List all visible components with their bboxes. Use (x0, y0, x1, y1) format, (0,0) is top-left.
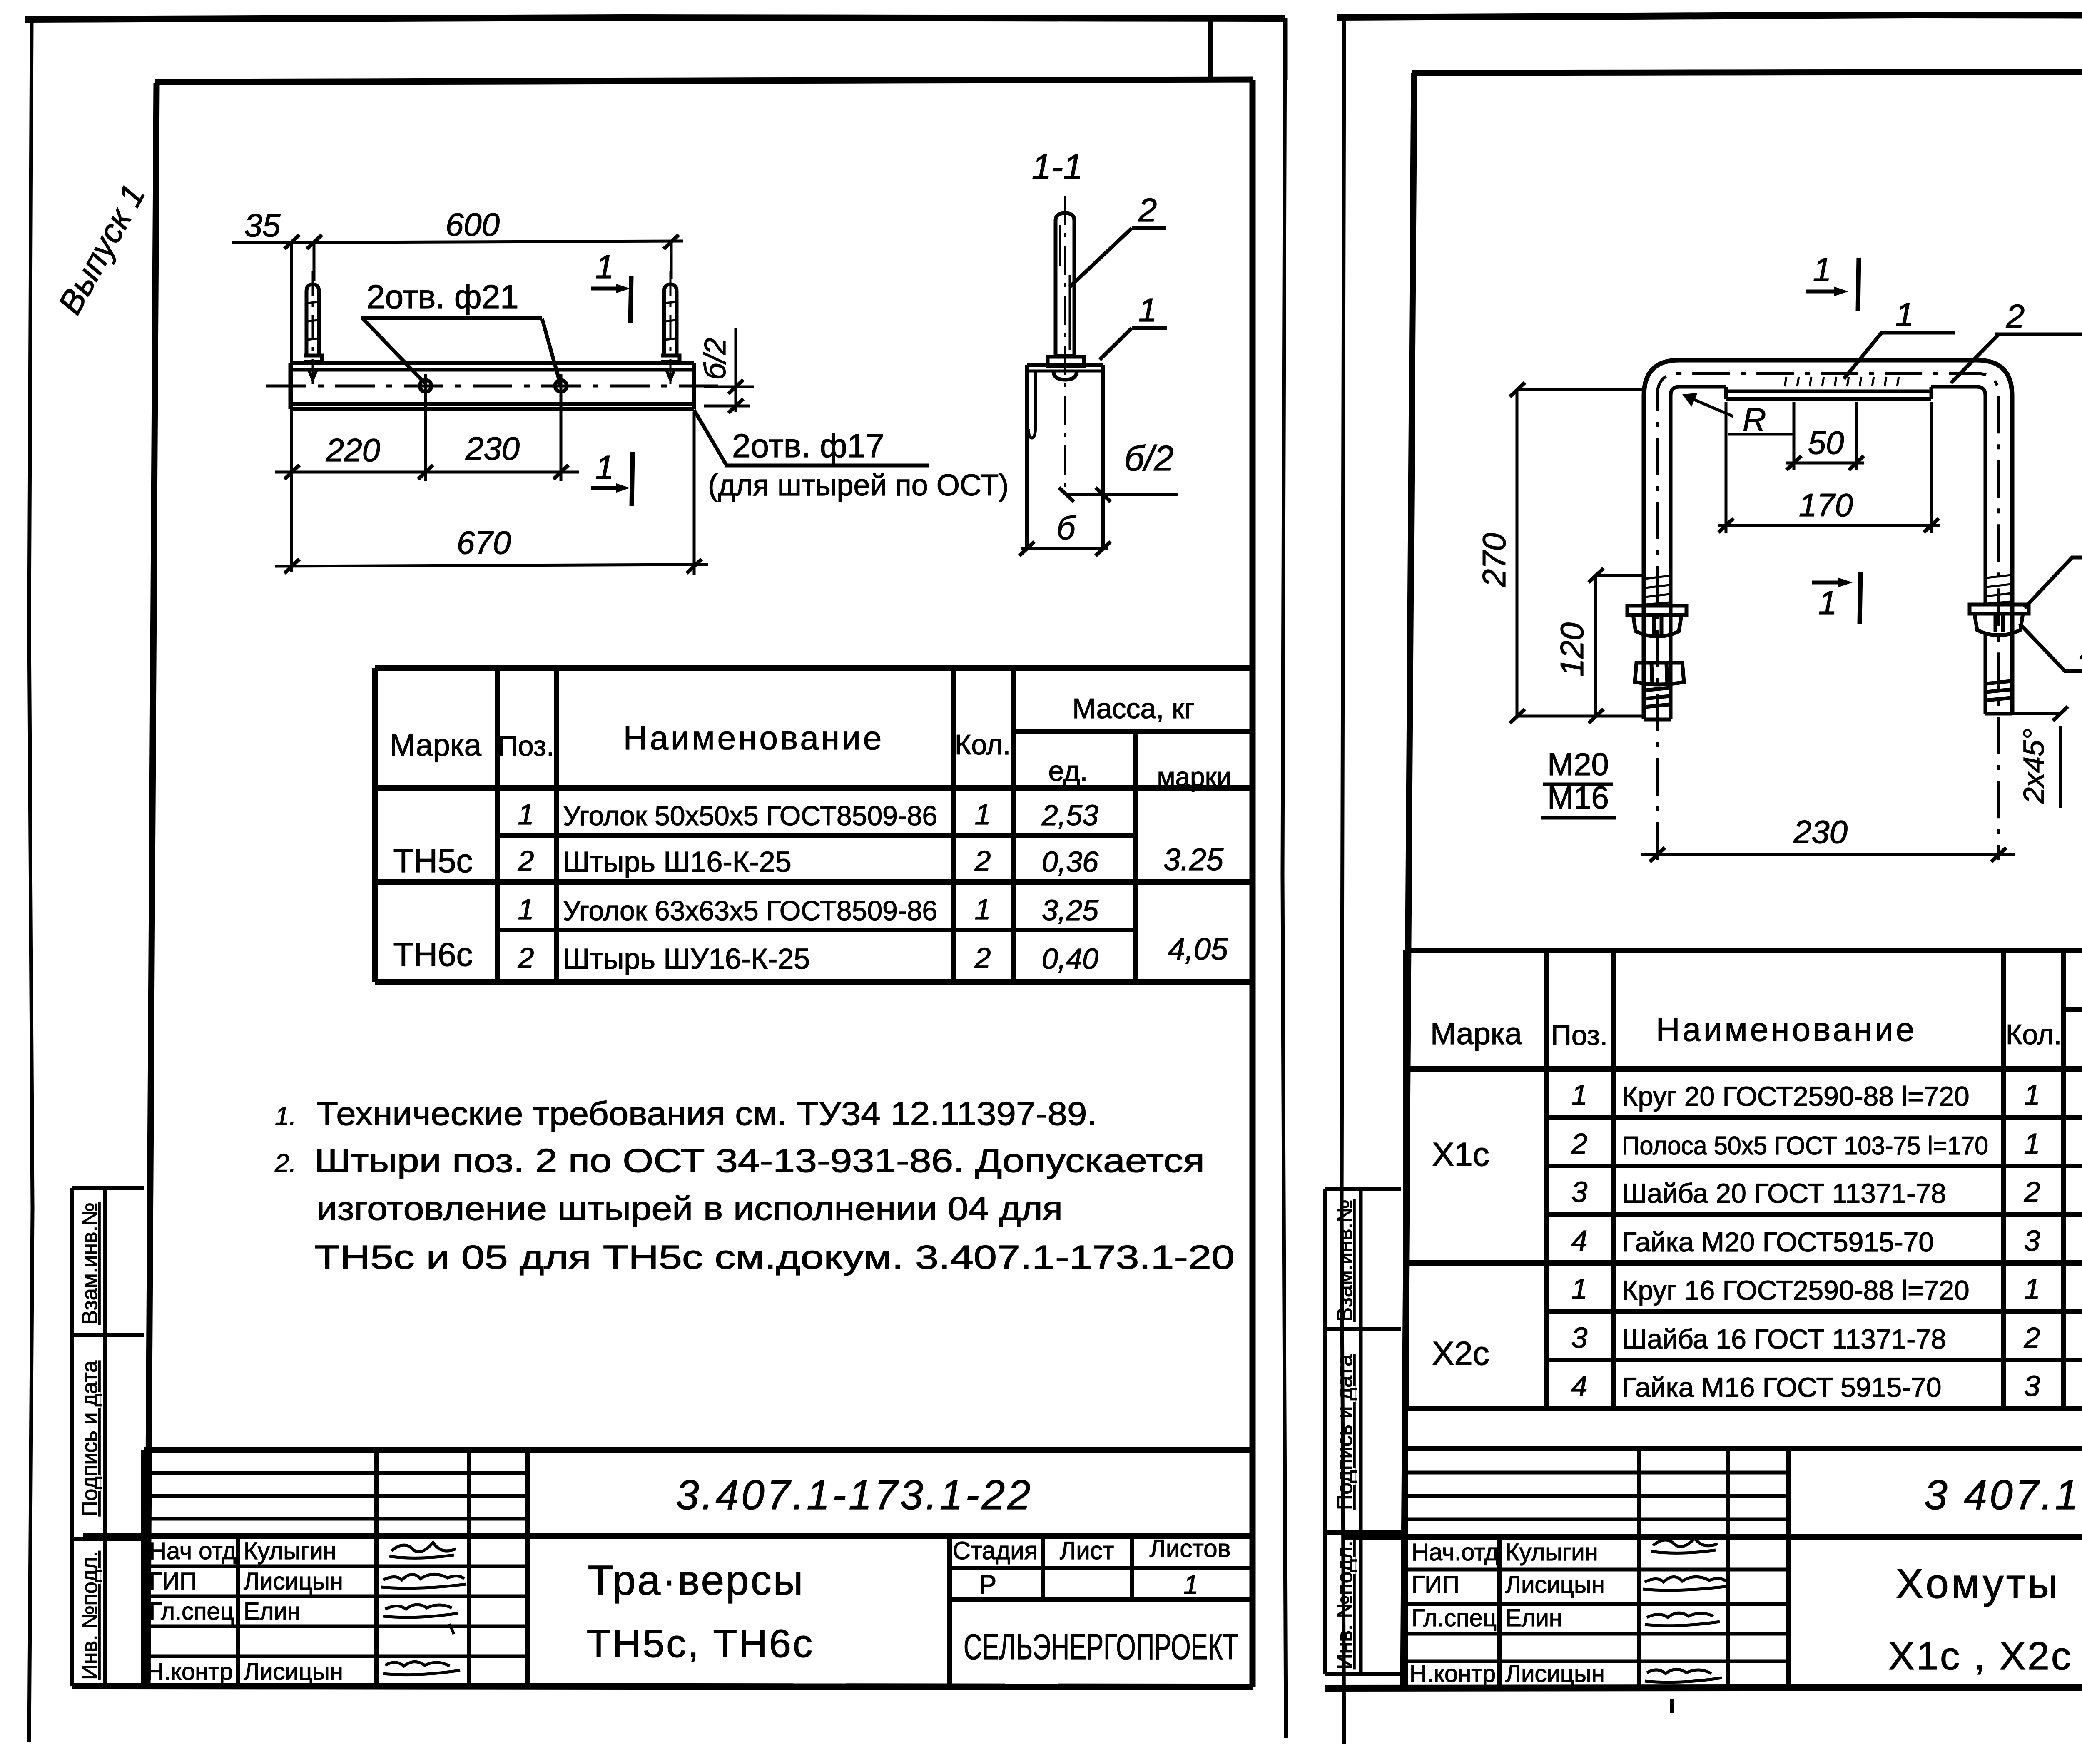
svg-text:1-1: 1-1 (1032, 147, 1083, 187)
crossarm angle bar side view (290, 363, 694, 409)
right signature 2 (1643, 1577, 1728, 1590)
svg-text:3.25: 3.25 (1163, 842, 1224, 877)
svg-text:2,53: 2,53 (1041, 799, 1098, 831)
svg-text:Хомуты: Хомуты (1896, 1560, 2060, 1607)
right row2 (1571, 1127, 2082, 1161)
svg-text:2: 2 (2024, 1176, 2040, 1208)
svg-text:2: 2 (518, 845, 534, 877)
right staff row3 (1412, 1605, 1562, 1632)
svg-text:Уголок 50х50х5 ГОСТ8509-86: Уголок 50х50х5 ГОСТ8509-86 (563, 800, 937, 831)
dimension line 220 230 (275, 398, 579, 481)
dimension 120 (1589, 568, 1646, 723)
leader 1 section (1100, 328, 1167, 360)
section pin washer and dome (1048, 357, 1084, 380)
left title block grid (72, 1450, 1253, 1687)
left table row4 (518, 942, 1099, 975)
svg-text:СЕЛЬЭНЕРГОПРОЕКТ: СЕЛЬЭНЕРГОПРОЕКТ (964, 1627, 1238, 1667)
leader 3 right sheet (2025, 557, 2082, 608)
svg-text:Наименование: Наименование (1656, 1011, 1917, 1048)
svg-text:Уголок 63х63х5 ГОСТ8509-86: Уголок 63х63х5 ГОСТ8509-86 (563, 895, 937, 926)
svg-text:1: 1 (1183, 1570, 1198, 1600)
svg-text:3: 3 (2024, 1224, 2040, 1257)
right washer (1970, 605, 2029, 614)
left sheet outer right border (1283, 18, 1286, 1738)
svg-text:(для штырей по ОСТ): (для штырей по ОСТ) (708, 469, 1009, 502)
leader 4 right sheet (2020, 624, 2082, 671)
right sheet outer left border (1342, 17, 1344, 1744)
right staff row1 (1412, 1539, 1598, 1566)
dimension б/2 of bar (704, 328, 754, 413)
left staff row2 (149, 1568, 343, 1595)
svg-text:2: 2 (518, 942, 534, 974)
svg-text:Инв. №подл.: Инв. №подл. (1333, 1540, 1357, 1669)
svg-text:М20: М20 (1547, 747, 1609, 782)
left staff row1 (149, 1538, 336, 1565)
svg-text:ТН5с, ТН6с: ТН5с, ТН6с (587, 1622, 814, 1666)
svg-text:Круг 16 ГОСТ2590-88 l=720: Круг 16 ГОСТ2590-88 l=720 (1622, 1275, 1970, 1306)
svg-text:Кулыгин: Кулыгин (244, 1538, 336, 1565)
right signature 5 (1645, 1669, 1722, 1682)
svg-text:4: 4 (1571, 1224, 1588, 1257)
svg-text:Елин: Елин (244, 1598, 301, 1625)
svg-text:Лист: Лист (1060, 1537, 1114, 1565)
svg-text:ед.: ед. (1048, 755, 1088, 787)
right row7 (1571, 1370, 2040, 1403)
svg-text:Кол.: Кол. (2006, 1019, 2062, 1050)
svg-text:Гл.спец: Гл.спец (1412, 1605, 1497, 1632)
svg-text:Нач.отд: Нач.отд (1412, 1539, 1499, 1566)
leader 2 right sheet (1951, 334, 2082, 383)
dimension 170 (1718, 402, 1940, 533)
svg-text:Р: Р (979, 1570, 997, 1600)
left signature 3 (383, 1605, 458, 1634)
svg-text:1: 1 (1138, 291, 1157, 328)
svg-text:1: 1 (2024, 1127, 2040, 1160)
left table row1 (518, 798, 1099, 831)
left pin (304, 284, 322, 380)
svg-text:Штырь Ш16-К-25: Штырь Ш16-К-25 (563, 846, 792, 878)
chamfer 2x45 (2012, 707, 2068, 808)
right row3 (1571, 1176, 2040, 1209)
svg-text:1.: 1. (275, 1102, 296, 1131)
svg-text:Шайба 20 ГОСТ 11371-78: Шайба 20 ГОСТ 11371-78 (1622, 1178, 1946, 1209)
left pin centerline (312, 271, 314, 385)
svg-text:марки: марки (1157, 762, 1232, 792)
svg-text:220: 220 (326, 432, 380, 468)
dimension 35 and 600 top line (232, 235, 683, 572)
right parts table grid (1406, 950, 2082, 1448)
leader 1 right sheet (1844, 333, 1955, 379)
right nut (1975, 614, 2023, 635)
svg-text:1: 1 (595, 449, 614, 486)
section pin (1056, 213, 1074, 356)
svg-text:Х1с: Х1с (1432, 1136, 1489, 1173)
svg-text:50: 50 (1808, 424, 1844, 461)
svg-text:R: R (1743, 401, 1766, 438)
svg-text:1: 1 (518, 798, 534, 831)
dimension 270 (1510, 383, 1645, 723)
dimension б/2 section (1059, 488, 1178, 502)
svg-text:230: 230 (1793, 814, 1848, 850)
small tick below right staff (1670, 1699, 1674, 1713)
svg-text:изготовление штырей в испол: изготовление штырей в исполнении 04 для (316, 1190, 1063, 1227)
svg-text:Марка: Марка (390, 728, 482, 762)
section mark 1 middle right sheet (1812, 572, 1860, 624)
svg-text:1: 1 (2024, 1079, 2040, 1111)
svg-text:ГИП: ГИП (149, 1568, 197, 1595)
dimension line 670 (275, 412, 708, 575)
right staff row5 (1410, 1660, 1605, 1687)
svg-text:Кулыгин: Кулыгин (1505, 1539, 1598, 1566)
svg-text:2: 2 (974, 942, 991, 974)
left table row2 (518, 845, 1099, 878)
svg-text:М16: М16 (1547, 780, 1609, 816)
svg-text:Полоса 50х5 ГОСТ 103-75 l=170: Полоса 50х5 ГОСТ 103-75 l=170 (1622, 1132, 1988, 1160)
svg-text:ТН5с: ТН5с (393, 842, 473, 879)
svg-text:б/2: б/2 (699, 338, 732, 380)
svg-text:1: 1 (2024, 1273, 2040, 1305)
reinforcing strip (1726, 387, 1931, 399)
left table row3 (518, 893, 1099, 926)
left signature 5 (383, 1662, 460, 1674)
svg-text:Взам.инв.№: Взам.инв.№ (1333, 1199, 1357, 1321)
leader 2отв ф21 (361, 318, 560, 385)
svg-text:1: 1 (518, 893, 534, 926)
right pin centerline (670, 271, 672, 385)
right row5 (1571, 1273, 2082, 1306)
thread marks top middle (1785, 377, 1899, 386)
left sheet outer left border (29, 20, 32, 1742)
right signature 1 (1651, 1538, 1718, 1553)
svg-text:Шайба 16 ГОСТ 11371-78: Шайба 16 ГОСТ 11371-78 (1622, 1324, 1946, 1354)
svg-text:2: 2 (1571, 1127, 1588, 1160)
svg-text:ТН5с и 05 для ТН5с см.до: ТН5с и 05 для ТН5с см.докум. 3.407.1-173… (314, 1239, 1235, 1276)
svg-text:Гл.спец: Гл.спец (149, 1598, 234, 1625)
svg-text:Лисицын: Лисицын (244, 1658, 343, 1685)
right signature 3 (1645, 1613, 1720, 1626)
right sheet inner frame (1403, 71, 2082, 1687)
dimension 230 bottom (1641, 848, 2015, 862)
left leg thread upper (1645, 576, 1669, 605)
svg-text:Тра·версы: Тра·версы (588, 1557, 804, 1604)
svg-text:Подпись и дата: Подпись и дата (1333, 1354, 1357, 1510)
svg-text:3: 3 (1571, 1321, 1588, 1354)
right row4 (1571, 1224, 2040, 1257)
dimension б section (1019, 542, 1111, 556)
leader 2отв ф17 (694, 410, 929, 465)
left staff row5 (147, 1658, 343, 1685)
svg-text:Лисицын: Лисицын (244, 1568, 343, 1595)
svg-text:Кол.: Кол. (955, 729, 1011, 761)
svg-text:Штыри поз. 2 по ОСТ 34-13-9: Штыри поз. 2 по ОСТ 34-13-931-86. Допуск… (314, 1142, 1205, 1179)
left stamp boxes (72, 1188, 144, 1686)
svg-text:3,25: 3,25 (1042, 894, 1099, 926)
hole 1 (420, 374, 431, 398)
svg-text:Штырь ШУ16-К-25: Штырь ШУ16-К-25 (563, 943, 810, 975)
svg-text:3 407.1-173.1-23: 3 407.1-173.1-23 (1924, 1472, 2082, 1518)
right pin (661, 284, 680, 380)
left leg lower part (1644, 606, 1671, 719)
page top border line left part (25, 17, 1285, 20)
left staff row3 (149, 1598, 301, 1625)
left sheet inner frame (147, 80, 1253, 1687)
right title block grid (1325, 1448, 2082, 1688)
left sheet page number box (1210, 18, 1285, 80)
svg-text:1: 1 (1571, 1079, 1588, 1111)
svg-text:Наименование: Наименование (623, 719, 884, 756)
svg-text:2: 2 (2024, 1321, 2040, 1354)
section mark 1 top right sheet (1806, 258, 1859, 311)
svg-text:Круг 20 ГОСТ2590-88 l=720: Круг 20 ГОСТ2590-88 l=720 (1622, 1081, 1970, 1112)
svg-text:0,40: 0,40 (1042, 943, 1098, 975)
hole 2 (555, 374, 567, 398)
svg-text:Х2с: Х2с (1432, 1335, 1489, 1372)
svg-text:Поз.: Поз. (498, 730, 554, 762)
svg-text:Гайка М20 ГОСТ5915-70: Гайка М20 ГОСТ5915-70 (1622, 1227, 1934, 1257)
section mark 1 lower (591, 452, 633, 506)
left signature 1 (389, 1543, 456, 1558)
svg-text:4: 4 (1571, 1370, 1588, 1402)
svg-text:1: 1 (595, 248, 614, 285)
svg-text:Масса, кг: Масса, кг (1072, 693, 1194, 724)
right row6 (1571, 1321, 2040, 1354)
svg-text:Подпись и дата: Подпись и дата (78, 1361, 102, 1516)
svg-text:Елин: Елин (1505, 1605, 1562, 1632)
svg-text:4,05: 4,05 (1168, 932, 1228, 966)
left second nut (1635, 663, 1684, 684)
section pin centerline (1064, 196, 1066, 495)
page top border line right part (1337, 15, 2082, 17)
svg-text:Поз.: Поз. (1551, 1020, 1608, 1051)
right stamp boxes (1325, 1189, 1401, 1674)
svg-text:Гайка М16 ГОСТ 5915-70: Гайка М16 ГОСТ 5915-70 (1622, 1372, 1941, 1403)
section mark 1 upper (591, 276, 631, 323)
svg-text:Нач отд: Нач отд (149, 1538, 236, 1565)
svg-text:35: 35 (244, 207, 281, 244)
left signature 2 (381, 1574, 466, 1588)
svg-text:Инв. №подл.: Инв. №подл. (78, 1551, 102, 1679)
svg-text:Марка: Марка (1430, 1016, 1522, 1051)
svg-text:Лисицын: Лисицын (1505, 1571, 1605, 1598)
svg-text:Х1с , Х2с: Х1с , Х2с (1888, 1634, 2073, 1678)
svg-text:Н.контр: Н.контр (147, 1658, 233, 1685)
section angle profile (1027, 365, 1103, 550)
svg-text:2: 2 (974, 845, 991, 877)
thread labels М20 М16 (1541, 747, 1616, 818)
svg-text:2х45°: 2х45° (2017, 729, 2050, 804)
svg-text:230: 230 (465, 430, 520, 467)
svg-text:170: 170 (1799, 487, 1853, 523)
svg-text:б/2: б/2 (1124, 439, 1174, 478)
svg-text:2отв. ф21: 2отв. ф21 (366, 278, 519, 315)
svg-text:Взам.инв.№: Взам.инв.№ (78, 1202, 102, 1324)
U-bolt centerline (1657, 373, 1999, 860)
svg-text:ГИП: ГИП (1412, 1571, 1459, 1598)
left washer (1627, 606, 1686, 615)
right staff row2 (1412, 1571, 1605, 1598)
svg-text:б: б (1057, 509, 1077, 546)
svg-text:270: 270 (1476, 533, 1512, 587)
right row1 (1571, 1079, 2082, 1112)
svg-text:Н.контр: Н.контр (1410, 1660, 1496, 1687)
svg-text:1: 1 (975, 893, 991, 926)
svg-text:1: 1 (1895, 296, 1914, 333)
U-bolt inner contour (1671, 387, 1985, 606)
svg-text:0,36: 0,36 (1042, 846, 1098, 878)
svg-text:2отв. ф17: 2отв. ф17 (732, 427, 884, 464)
right leg thread upper (1987, 575, 2011, 604)
svg-text:670: 670 (457, 524, 511, 561)
svg-text:1: 1 (1813, 251, 1832, 288)
bar centerline (266, 385, 720, 388)
svg-text:1: 1 (975, 798, 991, 831)
svg-text:2.: 2. (274, 1149, 296, 1178)
dimension 50 top (1786, 402, 1864, 470)
svg-text:Листов: Листов (1150, 1535, 1231, 1562)
svg-text:2: 2 (2006, 298, 2025, 335)
svg-text:3: 3 (2024, 1370, 2040, 1402)
left nut (1633, 615, 1681, 636)
svg-text:Выпуск 1: Выпуск 1 (51, 178, 152, 320)
svg-text:3.407.1-173.1-22: 3.407.1-173.1-22 (676, 1472, 1033, 1518)
svg-text:ТН6с: ТН6с (393, 936, 473, 973)
svg-text:Технические требования см. Т: Технические требования см. ТУ34 12.11397… (316, 1095, 1097, 1132)
left parts table grid (375, 668, 1253, 982)
svg-text:3: 3 (1571, 1176, 1588, 1208)
svg-text:600: 600 (446, 206, 500, 243)
svg-text:120: 120 (1554, 622, 1590, 677)
U-bolt outer contour (1644, 360, 2012, 719)
svg-text:Лисицын: Лисицын (1505, 1660, 1605, 1687)
right leg lower part (1985, 632, 2012, 714)
leader 2 section (1070, 228, 1166, 287)
leader R (1683, 393, 1795, 434)
svg-text:1: 1 (1571, 1273, 1588, 1305)
svg-text:Стадия: Стадия (953, 1537, 1038, 1565)
svg-text:2: 2 (1138, 192, 1157, 229)
svg-text:1: 1 (1818, 584, 1837, 621)
svg-text:4: 4 (2080, 634, 2082, 672)
